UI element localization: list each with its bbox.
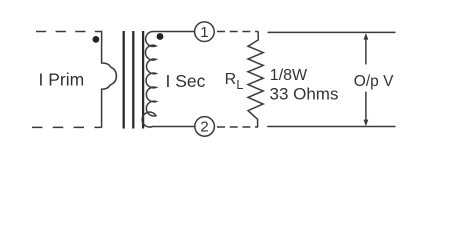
wire: secondary top to node 1 xyxy=(152,31,195,33)
transformer core line 3 xyxy=(142,31,144,129)
node 1 circle xyxy=(195,22,215,42)
svg-text:L: L xyxy=(236,78,243,92)
wire: bottom rail solid to output xyxy=(267,126,395,128)
polarity dot (secondary) xyxy=(157,33,164,40)
wire: primary top dashed lead xyxy=(34,31,102,33)
svg-text:2: 2 xyxy=(200,119,208,136)
svg-text:O/p V: O/p V xyxy=(354,73,394,90)
wire: primary bottom dashed lead xyxy=(30,126,102,128)
wire: dashed from node 1 to resistor top xyxy=(216,31,258,33)
transformer secondary winding L2 xyxy=(142,32,156,128)
transformer core line 1 xyxy=(123,31,125,129)
O/p V dimension arrow (down) xyxy=(364,92,369,127)
svg-text:1: 1 xyxy=(200,24,208,41)
svg-text:1/8W: 1/8W xyxy=(270,67,308,84)
svg-text:I Prim: I Prim xyxy=(39,69,85,89)
wire: secondary bottom to node 2 xyxy=(152,126,195,128)
svg-text:I Sec: I Sec xyxy=(166,71,206,91)
transformer core line 2 xyxy=(132,31,134,129)
resistor RL zigzag xyxy=(248,32,263,128)
O/p V dimension arrow (up) xyxy=(364,33,369,64)
polarity dot (primary) xyxy=(93,36,100,43)
svg-text:33 Ohms: 33 Ohms xyxy=(270,85,339,104)
wire: top rail solid to output xyxy=(268,31,396,33)
wire: dashed from node 2 to resistor bottom xyxy=(216,126,258,128)
node 2 circle xyxy=(195,117,215,137)
transformer primary winding L1 xyxy=(102,31,117,128)
svg-text:R: R xyxy=(225,71,237,88)
